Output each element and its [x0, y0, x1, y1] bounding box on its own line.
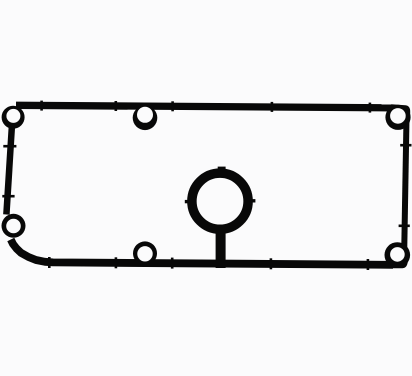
tick marks on left edge: [3, 145, 16, 148]
bolt hole openings (white): [6, 109, 20, 123]
node bottom-left bolt hole boss: [2, 214, 26, 238]
node bottom-right bolt hole boss: [385, 242, 411, 268]
tick marks on right edge: [400, 144, 411, 147]
node top-right bolt hole boss: [385, 105, 410, 130]
wire ring stem: [216, 230, 226, 268]
tick marks on bottom edge: [48, 257, 51, 268]
wire bottom-right corner: [391, 250, 405, 265]
tick marks on top edge: [40, 101, 43, 111]
wire bottom edge and lower-left diagonal: [11, 240, 393, 265]
wire right edge: [404, 118, 406, 252]
tick marks on ring: [185, 200, 190, 203]
node bottom-middle bolt hole boss: [133, 241, 157, 265]
wire top-right corner: [391, 108, 407, 120]
node center oil ring: [192, 173, 248, 229]
node top-left bolt hole boss: [2, 106, 25, 129]
wire top edge: [16, 105, 393, 108]
wire left edge: [6, 126, 11, 215]
node top-middle bolt hole boss: [133, 106, 158, 131]
